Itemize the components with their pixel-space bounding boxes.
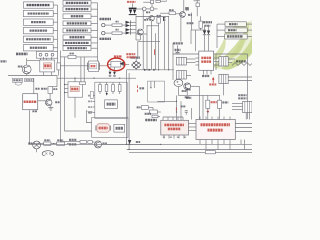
connector J7	[219, 57, 228, 66]
rail red arrow up	[212, 79, 214, 83]
wire bottom row	[30, 143, 44, 145]
label 音响	[107, 103, 116, 106]
resistor bank RA1	[99, 85, 102, 92]
rail red dashes TDA	[175, 108, 177, 111]
wire mid verticals	[146, 25, 148, 70]
annotation red ellipse	[108, 58, 125, 71]
resistor R06	[57, 142, 65, 145]
label left edge	[1, 60, 7, 62]
wire TDA top pins	[162, 117, 164, 120]
label TDA pin number 4	[184, 136, 187, 138]
label 上B	[139, 87, 144, 89]
label audio pin 2	[88, 100, 92, 102]
resistor R41	[141, 106, 148, 110]
label 右声道	[69, 139, 77, 141]
connector RT	[243, 102, 253, 113]
wire J7 right	[228, 58, 235, 60]
resistor Rch1	[80, 141, 87, 144]
transistor Q75	[184, 83, 191, 90]
wire 2k row	[60, 56, 68, 58]
transformer T1	[129, 8, 137, 16]
label Q72	[188, 14, 192, 16]
transistor Q07	[45, 99, 52, 106]
diode D15	[204, 26, 206, 31]
resistor bottom right	[205, 151, 215, 154]
label red 100R	[211, 101, 217, 103]
ground below Q07	[48, 107, 53, 109]
wire q07 links	[49, 94, 51, 100]
box 生成用	[63, 35, 91, 40]
resistor bank RA2	[105, 85, 108, 92]
connector plug2	[102, 31, 105, 34]
IC TDA8943	[161, 120, 189, 135]
box RGB PC	[23, 45, 53, 51]
diode D1	[126, 21, 131, 24]
capacitor C10u	[90, 92, 93, 99]
resistor R100	[206, 100, 210, 108]
wire above TDA	[176, 95, 178, 120]
label red Q1	[44, 64, 51, 67]
label C35 R39	[173, 42, 183, 44]
label audio pin 3	[88, 106, 92, 108]
wire left long vertical x64	[64, 57, 66, 110]
label R617	[145, 113, 151, 115]
label 1.34B	[181, 105, 186, 107]
label red osc	[99, 127, 108, 130]
label 2k	[70, 53, 74, 55]
label text 25针并行接插座	[65, 42, 89, 44]
box D21	[196, 3, 200, 7]
transistor AC01	[33, 141, 41, 149]
label text TIKI7051	[67, 22, 88, 24]
box 模糊	[225, 22, 246, 27]
wire RT to circle	[151, 4, 153, 7]
wire D21 links	[194, 0, 201, 2]
label red MST5C15	[24, 101, 37, 104]
box 音响 inner	[105, 100, 118, 109]
label red 303	[91, 65, 96, 67]
box SAt 门转换器	[63, 46, 91, 51]
transistor Q72	[180, 12, 186, 18]
label red T10M line2	[208, 129, 224, 132]
wire into AC box	[65, 110, 92, 131]
connector plug1	[102, 23, 105, 26]
box SCA 指示灯	[23, 28, 53, 34]
wire RT links	[232, 103, 243, 105]
wire column1 bus	[53, 4, 57, 6]
label TDA pin number 3	[177, 136, 180, 138]
box DVI 问题显示	[23, 10, 53, 16]
label uF1B	[185, 96, 189, 98]
resistor R303	[218, 100, 222, 108]
box 25针并行接插座	[63, 41, 91, 46]
label text MaS1431 TDI	[66, 29, 88, 31]
resistor R2	[57, 63, 60, 70]
crystal X1 outer	[89, 61, 99, 72]
wire bus bottom2	[127, 149, 252, 151]
label red +5V R610	[127, 1, 136, 3]
wire R2 stub	[58, 70, 60, 76]
wire boxes right edge	[246, 23, 252, 25]
wire red link	[99, 65, 108, 67]
oscillator red module	[97, 124, 109, 132]
wire Q1 pins	[42, 57, 44, 60]
resistor 2k	[68, 55, 76, 58]
regulator VT03 arrow	[120, 62, 124, 66]
wire to right boxes	[217, 23, 225, 25]
wire T10M right links	[235, 123, 252, 125]
fuse F1	[105, 24, 112, 26]
crystal X1 inner	[90, 63, 97, 68]
box 测压B	[225, 28, 247, 32]
label text DVI 问题显示	[28, 12, 50, 14]
battery oval	[174, 79, 183, 86]
diode D8	[163, 19, 166, 21]
resistor RT top	[151, 0, 154, 3]
connector J5	[177, 57, 187, 65]
label C20b	[146, 11, 150, 13]
label text MaD-841 STB	[66, 8, 89, 10]
label M01	[103, 143, 107, 145]
label red VD04	[71, 88, 78, 91]
box AC outer	[92, 118, 128, 138]
label R10	[53, 88, 57, 90]
label text RGB PC	[30, 47, 47, 49]
diode D4	[126, 31, 131, 34]
wire down to y95	[177, 87, 179, 96]
watermark leaf group	[211, 20, 252, 70]
IC MSP3410	[199, 51, 214, 70]
label text 生成用	[70, 36, 85, 38]
rail red arrow down	[207, 109, 209, 112]
label 模糊	[229, 23, 238, 25]
resistor R617	[152, 115, 158, 118]
wire long verticals mid	[126, 70, 128, 145]
wire into MST	[33, 78, 35, 94]
label audio pin 4	[88, 112, 92, 114]
label 天线接口1	[16, 53, 28, 56]
label L10	[169, 9, 174, 11]
wire AC01 to speaker	[36, 149, 38, 152]
label text AV 输入	[31, 21, 46, 23]
resistor bank RA3	[112, 85, 115, 92]
label R303	[222, 101, 228, 103]
label red 180B	[209, 83, 216, 85]
resistor Rch2	[88, 141, 93, 144]
label red VT03M	[114, 55, 122, 57]
label Q07	[55, 101, 59, 103]
label TDA pin number 2	[170, 136, 173, 138]
label 1.8	[32, 110, 37, 112]
diode D7	[163, 17, 166, 19]
wire frame right	[173, 53, 199, 55]
box AV 输入	[23, 19, 53, 25]
label text 遥控接收电路	[66, 2, 89, 4]
box audio block	[95, 82, 127, 118]
box 遥控接收电路	[63, 1, 91, 6]
label red TDA line2	[168, 128, 181, 131]
label T-BGB	[186, 88, 191, 90]
transistor VD1	[22, 65, 31, 74]
transistor M01	[95, 141, 102, 148]
label 电源接口1	[100, 18, 112, 20]
label C304	[131, 56, 140, 58]
label text AUDIO TV 伴音	[26, 38, 51, 40]
wire audio left pins	[92, 95, 95, 97]
box top small	[156, 0, 160, 2]
label red T10M line1	[201, 123, 231, 126]
wire between circles	[146, 8, 150, 10]
label ELH10B	[41, 88, 47, 90]
diode audio small	[106, 93, 108, 96]
resistor ELH10B	[48, 87, 52, 94]
oscillator circle B	[150, 7, 154, 11]
label F1	[116, 21, 119, 23]
label F2	[116, 29, 119, 31]
bridge rectifier BR1	[132, 61, 141, 69]
wire diodes to bus	[130, 21, 136, 23]
wire q70 vertical	[142, 11, 144, 29]
box VD7.5M label	[12, 78, 22, 82]
box 扩展接口控制模式	[23, 2, 53, 8]
inductor zigzag	[232, 63, 252, 66]
label C970	[187, 22, 194, 24]
box 电路 inner	[114, 124, 125, 132]
wire T1 top	[132, 3, 134, 7]
label R05	[44, 139, 50, 141]
diode DG2 to ground	[113, 72, 116, 75]
inductor L10	[169, 12, 176, 15]
wire extra mesh 2	[180, 16, 182, 41]
diode DA01	[128, 140, 131, 144]
varactor ellipse	[15, 82, 22, 85]
resistor bank RA4	[118, 85, 121, 92]
connector J6	[177, 71, 187, 80]
transistor Q70	[137, 29, 143, 35]
label RT2	[238, 97, 246, 99]
resistor RV above VD04	[80, 82, 86, 85]
wire antenna drops	[26, 58, 28, 65]
label C36	[35, 88, 39, 90]
speaker oval	[42, 151, 54, 157]
label YUV1 YUV2	[227, 35, 243, 37]
wire bus bottom1	[30, 143, 253, 145]
capacitor C10 plus	[175, 49, 181, 51]
wire MSP pins	[196, 57, 199, 59]
label text 蓝牙	[71, 15, 84, 17]
node dots bottom	[126, 144, 127, 145]
wire resistor bank stubs	[99, 82, 101, 84]
label red 最大电压	[127, 56, 136, 58]
wire resistor columns	[198, 86, 200, 120]
node rail arrows	[144, 69, 147, 71]
diode dark blob	[185, 7, 189, 11]
node dots above TDA	[176, 101, 177, 102]
oscillator plates	[95, 126, 97, 131]
wire Q72 vertical	[183, 0, 185, 12]
wire VT03 pins	[108, 63, 111, 65]
wire L10 links	[160, 12, 169, 14]
wire T10M bottom pins	[199, 140, 201, 145]
box AUDIO TV 伴音	[23, 36, 53, 42]
IC T10M-7M 1534	[196, 120, 235, 140]
box power sub	[148, 81, 165, 102]
box MaD-841 STB	[63, 7, 91, 12]
diode D2	[126, 24, 131, 27]
resistor R612	[157, 18, 160, 24]
regulator VT03 box	[111, 61, 121, 67]
IC MST5C15	[23, 94, 38, 110]
wire top edge links	[160, 0, 166, 2]
diode D16	[208, 26, 210, 31]
ground near audio	[88, 111, 93, 113]
label R06	[57, 139, 63, 141]
relay Q1 outer	[40, 60, 55, 72]
diode DG1 to ground	[109, 72, 112, 75]
wire stereo lines	[60, 141, 80, 143]
label 4F1B	[182, 90, 187, 92]
wire bus bottom3	[129, 151, 252, 153]
label 测压B	[228, 29, 237, 31]
label VD1	[18, 66, 23, 68]
box MaS1431 TDI	[63, 28, 91, 33]
box 蓝牙	[63, 14, 91, 19]
label text SCA 指示灯	[30, 30, 48, 32]
wire main rail	[127, 69, 174, 71]
wire column2 bus	[91, 2, 98, 4]
node dots rail	[74, 78, 75, 79]
label 电源接口2	[100, 38, 112, 40]
wire extra mesh topright	[143, 1, 151, 3]
label C20	[144, 19, 148, 21]
label RT1	[238, 94, 246, 96]
wire sub links	[148, 107, 153, 109]
label 2K5 R610	[201, 21, 213, 23]
wire TDA bottom pins	[163, 135, 165, 139]
capacitor C10 box	[150, 110, 158, 114]
box 同步 label	[25, 78, 33, 81]
wire TDA right links	[189, 123, 197, 125]
wire bridge stubs	[135, 59, 137, 61]
box TIKI7051	[63, 21, 91, 26]
diode D3	[126, 28, 131, 31]
resistor M10	[199, 21, 202, 28]
box YUV	[225, 34, 248, 39]
label 电源插孔	[145, 119, 157, 122]
crystal X1 plates	[87, 63, 89, 71]
label text SAt 门转换器	[67, 47, 87, 49]
relay Q1 inner red	[43, 63, 51, 69]
label 电路	[116, 127, 123, 130]
label C10uB	[186, 97, 192, 99]
wire top rail y78	[58, 77, 137, 79]
rail red mark	[154, 49, 156, 55]
wire VD04 pins	[64, 84, 68, 86]
wire T10M top pins	[199, 117, 201, 120]
label R41	[137, 106, 141, 108]
label DA01	[136, 141, 140, 143]
label text 扩展接口控制模式	[27, 4, 51, 6]
optocoupler VD04 inner red	[70, 86, 79, 91]
label red +5V 0.5	[126, 53, 135, 55]
label audio pin 1	[88, 95, 92, 97]
transistor Q71	[149, 16, 154, 21]
rail red dashes mid	[137, 85, 139, 88]
label TDA pin number 1	[163, 136, 166, 138]
optocoupler VD04 outer	[68, 82, 83, 97]
label 左声道	[69, 143, 77, 145]
connector antenna 3pin	[36, 51, 57, 58]
fuse F2	[105, 32, 112, 34]
capacitor CT1	[185, 110, 188, 112]
label red TDA line1	[164, 124, 184, 127]
resistor R05	[44, 142, 51, 145]
label 音频音量	[236, 60, 247, 62]
label red MSP line1	[201, 57, 211, 60]
label R612	[157, 15, 162, 17]
label AC01	[28, 142, 32, 144]
label red MSP line2	[201, 60, 211, 63]
oscillator circle A	[142, 7, 146, 11]
connector J8	[219, 74, 228, 83]
label M10	[205, 25, 211, 27]
wire sub verticals	[150, 81, 152, 88]
label 18.5B	[202, 75, 209, 77]
